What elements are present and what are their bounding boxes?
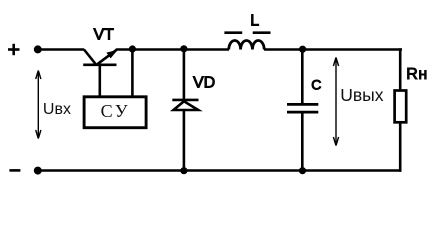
- terminal — [9, 169, 20, 172]
wire: diode upper lead — [183, 49, 186, 100]
control unit box СУ — [84, 97, 146, 128]
transistor VT — [83, 50, 118, 65]
svg-text:VT: VT — [94, 26, 115, 43]
resistor Rн — [395, 91, 407, 123]
svg-text:Uвых: Uвых — [340, 85, 384, 105]
wire: top rail right segment — [264, 48, 402, 51]
Uвх measurement arrow — [36, 71, 41, 139]
inductor L winding — [229, 40, 264, 49]
inductor L core bars — [224, 31, 270, 34]
wire: transistor base to control unit — [99, 65, 102, 96]
wire: top rail left segment — [38, 48, 84, 51]
svg-text:C: C — [311, 77, 321, 93]
svg-text:Rн: Rн — [406, 66, 427, 83]
wire: right vertical lower — [399, 122, 402, 172]
wire: capacitor upper lead — [301, 49, 304, 103]
Uвых measurement arrow — [333, 58, 338, 146]
wire: right vertical upper — [399, 48, 402, 90]
svg-text:СУ: СУ — [101, 101, 131, 121]
capacitor C plates — [287, 104, 318, 112]
node: diode top junction — [181, 46, 187, 52]
+ terminal — [8, 44, 20, 55]
svg-text:L: L — [250, 12, 259, 29]
node: diode bottom junction — [181, 168, 187, 174]
svg-text:Uвх: Uвх — [43, 101, 71, 118]
wire: junction down to control unit — [131, 49, 134, 96]
wire: capacitor lower lead — [301, 113, 304, 170]
node: capacitor top junction — [300, 46, 306, 52]
wire: top rail middle segment — [116, 48, 229, 51]
node: capacitor bottom junction — [299, 168, 305, 174]
wire: diode lower lead — [183, 110, 186, 171]
node: emitter junction to control unit — [129, 46, 135, 52]
diode VD — [172, 100, 198, 110]
terminal dot minus — [34, 167, 41, 174]
svg-text:VD: VD — [193, 75, 215, 92]
terminal dot plus — [34, 46, 41, 53]
wire: bottom rail — [38, 169, 402, 172]
